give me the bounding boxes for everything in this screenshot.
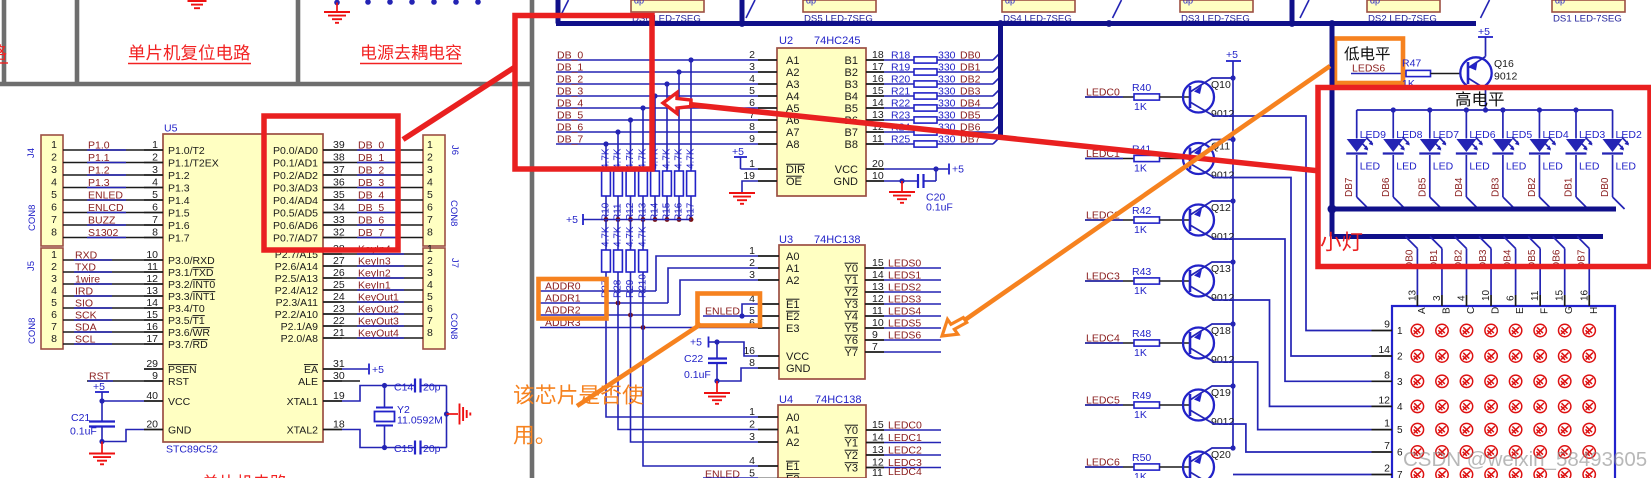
svg-text:P0.0/AD0: P0.0/AD0 <box>273 145 318 157</box>
svg-text:DS1 LED-7SEG: DS1 LED-7SEG <box>1553 13 1622 24</box>
capacitor C20 0.1uF <box>917 174 919 188</box>
svg-text:4: 4 <box>1397 402 1403 413</box>
power port +5 at EA pin <box>342 368 368 370</box>
svg-text:6: 6 <box>51 309 57 321</box>
svg-text:4: 4 <box>427 279 433 291</box>
svg-text:DIR: DIR <box>786 164 805 176</box>
svg-text:4.7K: 4.7K <box>601 148 612 169</box>
svg-text:3: 3 <box>749 431 755 443</box>
svg-text:P2.6/A14: P2.6/A14 <box>275 261 318 273</box>
svg-text:A0: A0 <box>786 251 799 263</box>
U2 OE pin with ground <box>758 180 777 182</box>
svg-text:4: 4 <box>1457 295 1468 301</box>
svg-text:13: 13 <box>872 444 884 456</box>
svg-text:EA: EA <box>304 364 318 376</box>
DB data bus vertical (thick) <box>998 24 1003 141</box>
orange annotation line LEDS6 to 低电平 box <box>951 66 1331 330</box>
crystal Y2 11.0592M <box>382 383 387 388</box>
svg-text:1K: 1K <box>1134 163 1147 175</box>
svg-text:P1.0/T2: P1.0/T2 <box>168 145 205 157</box>
svg-text:DB_5: DB_5 <box>557 110 583 122</box>
svg-text:4: 4 <box>749 455 755 467</box>
svg-text:E2: E2 <box>786 311 799 323</box>
svg-text:9012: 9012 <box>1494 71 1518 83</box>
ground at C22 <box>716 381 718 392</box>
LED9 indicator diode <box>1356 110 1358 139</box>
svg-text:CON8: CON8 <box>448 200 459 226</box>
svg-text:E1: E1 <box>786 461 799 473</box>
svg-text:DB4: DB4 <box>960 98 981 110</box>
svg-text:0.1uF: 0.1uF <box>684 369 711 381</box>
svg-text:TXD: TXD <box>193 267 214 279</box>
svg-text:4.7K: 4.7K <box>625 226 636 247</box>
svg-text:P3.5/: P3.5/ <box>168 315 193 327</box>
red annotation hollow arrow at DB_4 <box>663 93 691 114</box>
svg-text:10: 10 <box>872 317 884 329</box>
capacitor C22 0.1uF <box>716 342 718 358</box>
svg-text:P1.7: P1.7 <box>168 233 190 245</box>
svg-text:10: 10 <box>146 249 158 261</box>
svg-text:1: 1 <box>51 139 57 151</box>
LED6 indicator diode <box>1465 110 1467 139</box>
svg-text:15: 15 <box>872 419 884 431</box>
svg-text:A1: A1 <box>786 425 799 437</box>
svg-text:14: 14 <box>146 297 158 309</box>
net label LEDC2 wire <box>1085 219 1134 221</box>
net label LEDC4 wire <box>1085 342 1134 344</box>
svg-text:1K: 1K <box>1134 471 1147 478</box>
matrix row pin 3 <box>1372 380 1393 382</box>
svg-text:14: 14 <box>872 269 884 281</box>
svg-text:P0.7/AD7: P0.7/AD7 <box>273 233 318 245</box>
svg-text:1: 1 <box>51 249 57 261</box>
svg-text:P1.1/T2EX: P1.1/T2EX <box>168 158 219 170</box>
pull-up resistor array R10-R17 4.7K <box>602 171 611 196</box>
svg-text:4: 4 <box>51 285 57 297</box>
svg-text:20: 20 <box>872 158 884 170</box>
svg-text:4.7K: 4.7K <box>638 226 649 247</box>
svg-text:DB_7: DB_7 <box>557 134 583 146</box>
decoder U3 74HC138 <box>779 245 865 379</box>
ground at C20 <box>899 178 904 183</box>
matrix column pin DB0 <box>1405 237 1417 249</box>
svg-text:U2: U2 <box>779 35 793 47</box>
resistor R49 1K <box>1134 402 1160 408</box>
svg-text:A2: A2 <box>786 275 799 287</box>
svg-text:3: 3 <box>749 61 755 73</box>
LED4 indicator diode <box>1538 110 1540 139</box>
svg-text:E: E <box>1515 307 1526 314</box>
svg-text:LEDS6: LEDS6 <box>888 330 921 342</box>
svg-text:A4: A4 <box>786 91 799 103</box>
svg-text:1: 1 <box>427 139 433 151</box>
svg-text:Y0: Y0 <box>845 263 858 275</box>
svg-text:H: H <box>1589 307 1600 314</box>
LED matrix block <box>1392 306 1615 478</box>
svg-text:Y4: Y4 <box>845 311 858 323</box>
svg-text:DB_3: DB_3 <box>557 86 583 98</box>
net label LEDC5 wire <box>1085 404 1134 406</box>
svg-text:Q13: Q13 <box>1211 263 1231 275</box>
transistor Q20 9012 PNP <box>1183 452 1214 478</box>
svg-text:P1.2: P1.2 <box>168 170 190 182</box>
svg-text:LED: LED <box>1542 161 1563 173</box>
svg-text:E3: E3 <box>786 323 799 335</box>
svg-text:4.7K: 4.7K <box>613 226 624 247</box>
svg-text:9012: 9012 <box>1211 354 1235 366</box>
svg-text:PSEN: PSEN <box>168 364 197 376</box>
svg-text:Y0: Y0 <box>845 425 858 437</box>
microcontroller U5 STC89C52 <box>163 134 323 442</box>
svg-text:14: 14 <box>1378 344 1390 356</box>
svg-text:7: 7 <box>51 214 57 226</box>
svg-text:RST: RST <box>168 376 190 388</box>
wire C22 to U3 GND pin 8 <box>717 368 758 381</box>
svg-text:A2: A2 <box>786 67 799 79</box>
orange annotation hollow arrow at LEDS6 <box>936 311 969 342</box>
svg-text:8: 8 <box>749 121 755 133</box>
svg-text:11: 11 <box>872 133 883 145</box>
matrix column pin DB4 <box>1504 237 1516 249</box>
transistor Q16 9012 PNP <box>1460 57 1491 88</box>
svg-text:13: 13 <box>872 281 884 293</box>
section title 单片机复位电路 <box>129 44 145 60</box>
svg-text:0.1uF: 0.1uF <box>926 202 953 214</box>
LED bus (thick) <box>1332 207 1616 212</box>
svg-text:5: 5 <box>152 189 158 201</box>
svg-text:B4: B4 <box>845 91 858 103</box>
svg-text:A1: A1 <box>786 263 799 275</box>
svg-text:LED: LED <box>1616 161 1637 173</box>
svg-text:5: 5 <box>427 291 433 303</box>
red annotation connector line <box>403 67 515 140</box>
svg-text:E1: E1 <box>786 299 799 311</box>
svg-text:dp: dp <box>1370 0 1380 6</box>
svg-text:12: 12 <box>1378 394 1390 406</box>
7-segment display DS5 (clipped at top) <box>803 0 876 12</box>
wire LED7 cathode to bus, net DB5 <box>1429 155 1431 197</box>
svg-text:13: 13 <box>146 285 158 297</box>
svg-text:4.7K: 4.7K <box>601 226 612 247</box>
7-segment display DS4 (clipped at top) <box>1002 0 1075 12</box>
red annotation box 小灯 around LED row <box>1318 88 1650 267</box>
svg-text:P3.4/T0: P3.4/T0 <box>168 303 205 315</box>
svg-text:GND: GND <box>168 425 192 437</box>
svg-text:1K: 1K <box>1134 347 1147 359</box>
svg-text:ADDR1: ADDR1 <box>545 293 581 305</box>
svg-text:LEDS3: LEDS3 <box>888 294 921 306</box>
svg-text:4: 4 <box>152 177 158 189</box>
svg-text:P3.0/RXD: P3.0/RXD <box>168 255 215 267</box>
svg-text:4.7K: 4.7K <box>674 148 685 169</box>
svg-text:1: 1 <box>1397 326 1403 337</box>
svg-text:6: 6 <box>427 303 433 315</box>
svg-text:CON8: CON8 <box>448 313 459 339</box>
label 高电平 <box>1456 91 1470 106</box>
resistor R48 1K <box>1134 340 1160 346</box>
svg-text:DB_0: DB_0 <box>557 50 583 62</box>
red annotation line to 小灯 box <box>689 105 1320 172</box>
svg-text:20p: 20p <box>423 443 441 455</box>
svg-text:2: 2 <box>1384 463 1390 475</box>
svg-text:OE: OE <box>786 176 802 188</box>
svg-text:40: 40 <box>146 390 158 402</box>
svg-text:XTAL2: XTAL2 <box>287 425 318 437</box>
collector wire Q11 to matrix <box>1190 164 1372 357</box>
decoupling capacitor bottom junctions (clipped) <box>365 0 371 5</box>
svg-text:6: 6 <box>152 202 158 214</box>
svg-text:11: 11 <box>1530 290 1541 301</box>
svg-text:8: 8 <box>51 333 57 345</box>
7-segment display DS1 (clipped at top) <box>1552 0 1625 12</box>
svg-text:9012: 9012 <box>1211 292 1235 304</box>
ADDR0-ADDR3 net label wires <box>540 290 656 292</box>
svg-text:P2.0/A8: P2.0/A8 <box>281 333 319 345</box>
svg-text:1K: 1K <box>1134 409 1147 421</box>
net label ENLED to U3 E1/E2 <box>703 315 742 317</box>
svg-text:330: 330 <box>938 86 956 98</box>
transistor Q18 9012 PNP <box>1183 328 1214 359</box>
svg-text:R50: R50 <box>1132 452 1151 464</box>
svg-text:F: F <box>1540 308 1551 314</box>
svg-text:C21: C21 <box>71 412 90 424</box>
svg-text:J7: J7 <box>449 258 460 268</box>
svg-text:Y5: Y5 <box>845 323 858 335</box>
svg-text:2: 2 <box>51 152 57 164</box>
svg-text:G: G <box>1564 306 1575 314</box>
U2 GND pin 10 wire <box>866 180 884 182</box>
net label LEDC1 wire <box>1085 158 1134 160</box>
svg-text:R43: R43 <box>1132 266 1151 278</box>
svg-text:1K: 1K <box>1134 101 1147 113</box>
svg-text:VCC: VCC <box>835 164 858 176</box>
svg-text:LED: LED <box>1360 161 1381 173</box>
svg-text:P2.4/A12: P2.4/A12 <box>275 285 318 297</box>
svg-text:7: 7 <box>872 341 878 353</box>
svg-text:5: 5 <box>749 468 755 478</box>
collector wire Q10 to matrix <box>1190 102 1372 331</box>
svg-text:LED: LED <box>1433 161 1454 173</box>
svg-text:6: 6 <box>749 97 755 109</box>
svg-text:ADDR0: ADDR0 <box>545 281 581 293</box>
svg-text:1: 1 <box>749 406 755 418</box>
bus vertical stubs going up <box>556 0 561 24</box>
svg-text:17: 17 <box>872 61 884 73</box>
svg-text:B8: B8 <box>845 139 858 151</box>
svg-text:A7: A7 <box>786 127 799 139</box>
svg-text:16: 16 <box>1579 289 1590 301</box>
svg-text:DB1: DB1 <box>960 62 981 74</box>
svg-text:15: 15 <box>1555 289 1566 301</box>
svg-text:GND: GND <box>834 176 859 188</box>
wire ALE stub <box>342 380 360 382</box>
svg-text:2: 2 <box>749 257 755 269</box>
svg-text:330: 330 <box>938 110 956 122</box>
svg-text:+5: +5 <box>372 364 384 376</box>
LED7 indicator diode <box>1429 110 1431 139</box>
svg-text:P0.2/AD2: P0.2/AD2 <box>273 170 318 182</box>
resistor R43 1K <box>1134 278 1160 284</box>
resistor R50 1K <box>1134 464 1160 470</box>
LED3 indicator diode <box>1575 110 1577 139</box>
svg-text:4: 4 <box>749 73 755 85</box>
matrix row pin 4 <box>1372 405 1393 407</box>
svg-text:6: 6 <box>1506 295 1517 301</box>
matrix row pin 5 <box>1372 429 1393 431</box>
matrix column pin DB7 <box>1577 237 1589 249</box>
svg-text:Y1: Y1 <box>845 275 858 287</box>
svg-text:2: 2 <box>427 152 433 164</box>
svg-text:14: 14 <box>872 432 884 444</box>
svg-text:2: 2 <box>51 261 57 273</box>
svg-text:Q20: Q20 <box>1211 449 1231 461</box>
bus entry diagonals to displays <box>560 0 569 18</box>
svg-text:15: 15 <box>872 257 884 269</box>
red annotation box around DB_ labels <box>515 16 652 170</box>
emitter +5 rail vertical <box>1232 61 1234 447</box>
vertical taps to pull-up resistors <box>690 60 692 171</box>
svg-text:10: 10 <box>872 170 884 182</box>
wires J4 to U5 port1 with net labels <box>63 149 144 151</box>
svg-text:4.7K: 4.7K <box>638 148 649 169</box>
svg-text:9012: 9012 <box>1211 108 1235 120</box>
collector wire Q18 to matrix <box>1190 348 1372 430</box>
svg-text:LED: LED <box>1396 161 1417 173</box>
svg-text:Y2: Y2 <box>845 287 858 299</box>
svg-text:LEDS4: LEDS4 <box>888 306 921 318</box>
svg-text:B5: B5 <box>845 103 858 115</box>
7-segment display DS2 (clipped at top) <box>1367 0 1440 12</box>
svg-text:5: 5 <box>427 189 433 201</box>
svg-text:16: 16 <box>872 73 884 85</box>
svg-text:3: 3 <box>1432 295 1443 301</box>
svg-text:INT0: INT0 <box>193 279 216 291</box>
svg-text:3: 3 <box>427 164 433 176</box>
svg-text:DB_4: DB_4 <box>557 98 583 110</box>
svg-text:U5: U5 <box>164 123 178 135</box>
svg-text:B: B <box>1441 307 1452 314</box>
svg-text:330: 330 <box>938 62 956 74</box>
svg-text:LEDC4: LEDC4 <box>888 466 922 478</box>
svg-text:3: 3 <box>51 273 57 285</box>
pull-up resistor array R27-R30 4.7K <box>605 220 607 251</box>
matrix LED cells <box>1411 324 1595 478</box>
svg-text:3: 3 <box>51 164 57 176</box>
matrix row pin 6 <box>1372 451 1393 453</box>
svg-text:R42: R42 <box>1132 205 1151 217</box>
transistor Q10 9012 PNP <box>1183 82 1214 113</box>
svg-text:4: 4 <box>427 177 433 189</box>
svg-text:WR: WR <box>193 327 211 339</box>
svg-text:74HC138: 74HC138 <box>815 394 861 406</box>
svg-text:CON8: CON8 <box>27 205 38 231</box>
capacitor C15 20p <box>414 441 416 455</box>
svg-text:4.7K: 4.7K <box>613 148 624 169</box>
svg-text:LEDS5: LEDS5 <box>888 318 921 330</box>
matrix column pin DB3 <box>1479 237 1491 249</box>
sheet section divider lines <box>0 0 532 478</box>
svg-text:8: 8 <box>152 227 158 239</box>
svg-text:4.7K: 4.7K <box>662 148 673 169</box>
svg-text:1: 1 <box>749 158 755 170</box>
LED anode rail <box>1357 109 1613 111</box>
ground below C21 <box>101 442 103 453</box>
svg-text:P2.3/A11: P2.3/A11 <box>276 297 319 309</box>
ground sideways at crystal <box>444 411 449 416</box>
svg-text:LEDC2: LEDC2 <box>888 445 922 457</box>
svg-text:5: 5 <box>51 189 57 201</box>
svg-text:B3: B3 <box>845 79 858 91</box>
svg-text:6: 6 <box>51 202 57 214</box>
wire GND jog to pin 20 <box>102 430 144 442</box>
svg-text:B7: B7 <box>845 127 858 139</box>
wire +5 to U3 VCC pin 16 <box>717 342 758 356</box>
svg-text:R48: R48 <box>1132 328 1151 340</box>
svg-text:P3.2/: P3.2/ <box>168 279 193 291</box>
collector wire Q20 to matrix <box>1190 472 1210 478</box>
svg-text:13: 13 <box>872 109 884 121</box>
svg-text:Y3: Y3 <box>845 463 858 475</box>
svg-text:17: 17 <box>146 333 158 345</box>
matrix row pin 2 <box>1372 355 1393 357</box>
svg-text:+5: +5 <box>952 164 964 176</box>
svg-text:+5: +5 <box>690 337 702 349</box>
transistor Q13 9012 PNP <box>1183 266 1214 297</box>
svg-text:C22: C22 <box>684 353 703 365</box>
svg-text:P3.6/: P3.6/ <box>168 327 193 339</box>
vertical bus from 7seg bus down (thick) <box>1330 24 1335 237</box>
svg-text:dp: dp <box>806 0 816 6</box>
svg-text:330: 330 <box>938 134 956 146</box>
svg-text:GND: GND <box>786 363 811 375</box>
LED8 indicator diode <box>1392 110 1394 139</box>
svg-text:D: D <box>1491 307 1502 314</box>
section title (clipped) 路 <box>0 44 7 60</box>
svg-text:10: 10 <box>1481 289 1492 301</box>
connector J6 CON8 <box>423 135 445 246</box>
wires J5 to U5 port3 with net labels <box>63 259 144 261</box>
svg-text:LEDS2: LEDS2 <box>888 282 921 294</box>
collector wire Q19 to matrix <box>1190 410 1372 452</box>
LED5 indicator diode <box>1502 110 1504 139</box>
svg-text:P0.6/AD6: P0.6/AD6 <box>273 220 318 232</box>
svg-text:7: 7 <box>1397 470 1403 478</box>
svg-text:7: 7 <box>1384 440 1390 452</box>
net label LEDC3 wire <box>1085 280 1134 282</box>
resistor R42 1K <box>1134 217 1160 223</box>
svg-text:9: 9 <box>152 370 158 382</box>
svg-text:1: 1 <box>152 139 158 151</box>
svg-text:U3: U3 <box>779 234 793 246</box>
svg-text:A2: A2 <box>786 437 799 449</box>
LED2 indicator diode <box>1612 110 1614 139</box>
bus junction dots <box>739 20 746 27</box>
svg-text:J4: J4 <box>26 148 37 158</box>
svg-text:P0.1/AD1: P0.1/AD1 <box>273 158 318 170</box>
U5 left pin stubs and numbers <box>144 149 163 151</box>
red label 小灯 <box>1321 232 1341 251</box>
svg-text:11: 11 <box>872 467 883 478</box>
svg-text:A8: A8 <box>786 139 799 151</box>
svg-text:3: 3 <box>427 267 433 279</box>
svg-text:1K: 1K <box>1134 285 1147 297</box>
net label LEDC6 wire <box>1085 466 1134 468</box>
U2 VCC pin 20 wire with +5 <box>866 168 884 170</box>
svg-text:1: 1 <box>427 243 433 255</box>
wires U5 to J7 key net labels <box>342 253 423 255</box>
svg-text:11: 11 <box>872 305 883 317</box>
svg-text:Y7: Y7 <box>845 347 858 359</box>
